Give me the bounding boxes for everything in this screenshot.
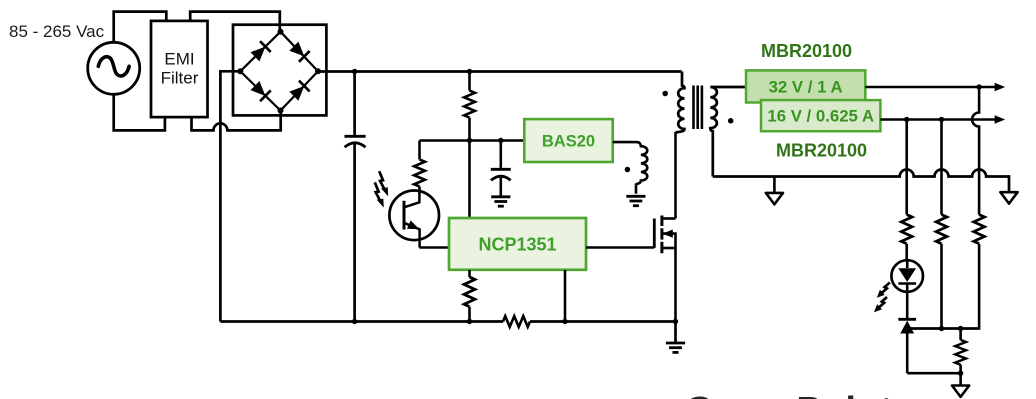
output block 32V	[746, 70, 865, 102]
wire zener anode bottom	[907, 372, 960, 375]
output block 16V	[761, 100, 880, 131]
transformer T1 secondary	[710, 87, 746, 177]
node dot rail C1	[352, 69, 357, 74]
transformer T1 primary	[676, 72, 685, 133]
light arrows out of LED	[874, 283, 890, 313]
bridge diode D2 top-right	[289, 41, 310, 62]
node dots 16V branches	[904, 117, 944, 122]
wire 16V output	[880, 118, 995, 121]
resistor R7 16V left	[901, 215, 912, 261]
resistor R8 feedback lower	[955, 329, 966, 374]
svg-text:MBR20100: MBR20100	[761, 41, 852, 61]
arrow 16V	[995, 115, 1006, 123]
wire AC top	[114, 12, 167, 43]
resistor R1 startup upper	[464, 72, 475, 219]
svg-text:GreenPoint: GreenPoint	[685, 388, 893, 399]
dot secondary phase	[728, 118, 734, 124]
label GreenPoint cut off	[685, 388, 893, 399]
wire EMI out bottom to bridge with hop	[192, 111, 281, 131]
capacitor C1 bulk	[345, 72, 366, 322]
zener diode ZD1	[898, 319, 916, 373]
wire Vcc node horizontal	[420, 139, 525, 142]
ground aux	[626, 196, 645, 205]
optocoupler U2 LED	[891, 260, 923, 319]
wire branch 16V left down	[905, 120, 908, 215]
wire bottom rail right	[530, 320, 676, 323]
diode block BAS20	[524, 119, 612, 162]
node dot 32V branch	[976, 84, 981, 89]
svg-text:85 - 265 Vac: 85 - 265 Vac	[9, 22, 105, 41]
wire MOSFET source down	[674, 248, 677, 322]
bridge diode D1 top-left	[250, 41, 271, 62]
IC U1 NCP1351	[449, 218, 586, 270]
dot aux winding	[625, 167, 631, 173]
svg-text:Filter: Filter	[161, 69, 199, 88]
ground primary	[666, 322, 685, 353]
wire MOSFET drain up	[674, 132, 677, 219]
EMI filter block	[151, 21, 208, 117]
label MBR20100 bottom	[776, 141, 867, 161]
wire bottom rail left	[220, 320, 503, 323]
ground C2	[491, 197, 510, 206]
node dots feedback	[939, 326, 964, 331]
node dot Vcc C2	[498, 138, 503, 143]
MOSFET Q1	[654, 216, 675, 254]
svg-text:32 V / 1 A: 32 V / 1 A	[769, 77, 843, 96]
wire EMI out top to bridge	[190, 12, 280, 32]
bridge diode D4 bottom-right	[289, 81, 310, 102]
wire 32V output	[865, 86, 995, 89]
optocoupler U2 phototransistor	[389, 191, 439, 248]
AC source V1	[88, 42, 140, 94]
wire opto emitter to NCP1351	[419, 246, 449, 249]
bridge diamond wires	[240, 32, 318, 111]
svg-text:16 V / 0.625 A: 16 V / 0.625 A	[767, 107, 874, 126]
label 85 - 265 Vac	[9, 22, 105, 41]
wire branch 32V down with hop	[972, 87, 979, 215]
node dot Vcc R1	[467, 138, 472, 143]
wire NCP pin bottom right	[564, 270, 567, 322]
svg-text:MBR20100: MBR20100	[776, 141, 867, 161]
resistor R2 opto collector	[414, 141, 425, 193]
ground secondary right	[1000, 192, 1017, 203]
transformer T1 core	[694, 86, 702, 130]
wire branch 16V mid down	[940, 120, 943, 215]
wire feedback mid horizontal	[907, 327, 979, 330]
node dot bottom feedback	[958, 371, 963, 376]
node dots bottom rail	[352, 319, 678, 324]
resistor R5 32V branch	[907, 215, 984, 329]
resistor R3 NCP bottom	[464, 270, 475, 322]
wire secondary return with hops	[713, 170, 1009, 192]
wire AC bottom	[114, 94, 165, 130]
capacitor C2 Vcc	[491, 141, 511, 197]
label MBR20100 top	[761, 41, 852, 61]
wire NCP gate drive	[586, 246, 654, 249]
ground feedback	[952, 373, 969, 397]
light arrows into opto	[375, 171, 388, 207]
arrow 32V	[995, 83, 1006, 91]
resistor R4 sense horizontal	[503, 316, 530, 327]
ground secondary left	[766, 177, 783, 205]
bridge rectifier box	[233, 25, 326, 116]
bridge node dots	[237, 29, 321, 114]
bridge diode D3 bottom-left	[250, 80, 271, 101]
svg-text:BAS20: BAS20	[542, 133, 595, 151]
svg-text:NCP1351: NCP1351	[478, 235, 556, 255]
dot primary phase	[662, 91, 668, 97]
wire DC top rail	[318, 70, 682, 73]
svg-text:EMI: EMI	[164, 50, 194, 69]
aux winding T1c	[613, 142, 648, 194]
node dot rail R1	[467, 69, 472, 74]
wire bridge negative return left	[220, 71, 240, 321]
resistor R6 16V mid	[936, 215, 947, 329]
